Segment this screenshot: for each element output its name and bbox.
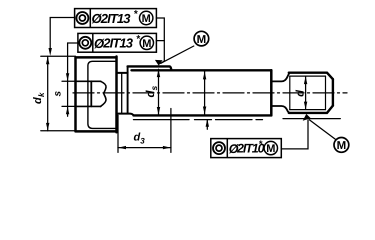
- svg-text:2IT13: 2IT13: [102, 36, 133, 51]
- thread runout vertical: [325, 76, 327, 110]
- big leader arrow at collar: [155, 60, 163, 66]
- arrow frame2/s top: [66, 73, 69, 81]
- ds dimension line: [158, 69, 160, 115]
- arrow dk top: [46, 56, 49, 64]
- arrow d top: [304, 76, 307, 84]
- label d3: [134, 132, 146, 146]
- dk extension top: [41, 55, 76, 57]
- svg-text:M: M: [142, 13, 151, 25]
- hex socket walls: [76, 81, 101, 106]
- frame1 connector: [50, 18, 74, 49]
- d3 extension right: [170, 109, 172, 153]
- frame2 connector: [68, 42, 78, 44]
- shank top edge: [132, 69, 272, 71]
- datum circle M1: [194, 31, 209, 46]
- big leader arrow at thread: [303, 114, 311, 121]
- dk dimension line: [47, 56, 49, 130]
- label ds: [145, 86, 159, 98]
- thread start vertical: [289, 76, 291, 110]
- hex socket depth line: [90, 81, 92, 106]
- svg-text:s: s: [52, 91, 63, 97]
- neck bottom edge: [117, 114, 134, 116]
- arrow ds bottom: [157, 107, 160, 115]
- shank bottom edge: [134, 114, 272, 116]
- frame2 right link: [156, 40, 164, 42]
- hex socket cone end: [101, 81, 107, 106]
- leader from M2: [309, 120, 335, 140]
- label d thread: [294, 90, 306, 97]
- thread crest bottom: [289, 106, 333, 113]
- thread root top: [290, 75, 326, 77]
- datum circle M2: [334, 138, 349, 153]
- svg-text:3: 3: [140, 137, 145, 146]
- s dimension line: [67, 43, 69, 116]
- groove top edge: [272, 73, 289, 81]
- neck groove line 1: [121, 73, 123, 114]
- arrow frame1 connector: [49, 48, 52, 56]
- leader from M1: [161, 46, 194, 63]
- collar top line (d3 section): [128, 66, 172, 70]
- dk extension bottom: [41, 130, 76, 132]
- frame1 right link: [156, 18, 164, 63]
- d3 extension left: [117, 115, 119, 152]
- tolerance frame F2: [78, 33, 156, 52]
- arrow dk bottom: [46, 123, 49, 131]
- shank end face: [270, 70, 273, 115]
- thread root bottom: [290, 109, 326, 111]
- arrow d bottom: [304, 102, 307, 110]
- neck top edge: [117, 72, 128, 74]
- phantom d3 bottom line solid part: [134, 119, 190, 121]
- arrow ds top: [157, 69, 160, 77]
- label s: [52, 91, 63, 97]
- head inner contour: [88, 61, 117, 128]
- head outline: [76, 57, 117, 133]
- d3 dimension line: [118, 147, 171, 149]
- neck groove line 2 / collar step: [127, 66, 129, 113]
- arrow d3 left: [118, 146, 126, 149]
- svg-text:s: s: [149, 86, 159, 91]
- lower outside-arrow dimension line: [206, 120, 208, 130]
- svg-text:M: M: [142, 38, 151, 50]
- d dimension line: [305, 76, 307, 109]
- svg-text:d: d: [32, 97, 44, 104]
- second shank dimension line: [204, 72, 206, 115]
- s dimension extension lines: [62, 81, 76, 106]
- svg-text:M: M: [266, 143, 275, 155]
- arrow shank2 top: [203, 72, 206, 80]
- phantom d3 bottom line dashes: [195, 119, 263, 121]
- arrow lower outside: [206, 119, 209, 127]
- thread crest top: [289, 73, 333, 80]
- arrow shank2 bottom: [203, 107, 206, 115]
- thread end face: [332, 79, 334, 105]
- tolerance frame F3: [211, 139, 281, 158]
- svg-text:M: M: [337, 140, 347, 152]
- frame3 connector: [281, 120, 308, 149]
- svg-text:k: k: [37, 92, 46, 97]
- arrow s bottom outside: [66, 107, 69, 115]
- centerline axis: [73, 92, 347, 94]
- thin line under thread: [283, 118, 340, 120]
- label dk: [32, 92, 46, 104]
- tolerance frame F1: [75, 9, 157, 28]
- arrow d3 right: [163, 146, 171, 149]
- svg-text:2IT13: 2IT13: [100, 11, 131, 26]
- groove bottom edge: [272, 106, 289, 113]
- svg-text:d: d: [294, 90, 306, 97]
- svg-text:M: M: [197, 34, 207, 46]
